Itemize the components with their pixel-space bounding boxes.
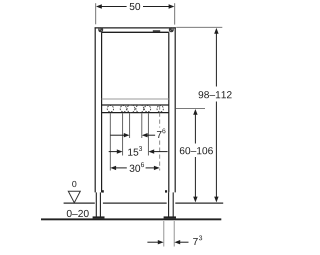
corner screw left: [98, 27, 103, 32]
tab mark on crossbar: [153, 30, 160, 31]
label 7-3: [193, 238, 198, 245]
supply pipe left outer edge: [122, 113, 124, 155]
left leg: [96, 192, 100, 216]
extension line x110: [109, 113, 111, 170]
dimension 7-3 extension right: [173, 221, 175, 247]
finished floor line: [64, 202, 224, 204]
dimension 50 extension left: [95, 3, 97, 24]
right leg: [169, 192, 174, 216]
dimension 15-3: [109, 146, 168, 156]
dimension 60-106: [180, 109, 213, 202]
dimension 50 extension right: [174, 3, 176, 24]
label 60-106: [180, 147, 185, 154]
level symbol triangle: [68, 191, 80, 203]
corner screw right: [169, 27, 174, 32]
left foot plate: [93, 216, 105, 218]
rail holes (dashed circles): [107, 105, 163, 113]
clamp nub right: [165, 190, 167, 192]
dimension 50: [96, 3, 174, 10]
mounting rail upper edge: [102, 98, 169, 100]
right foot plate: [164, 216, 176, 218]
dimension 7-6: [110, 128, 166, 139]
dimension 98-112: [199, 28, 232, 203]
right rail: [169, 27, 175, 192]
raw floor line: [41, 218, 221, 220]
dimension 7-3: [147, 235, 202, 245]
label 50: [130, 3, 135, 10]
level zero label: [72, 181, 76, 187]
supply pipe right outer edge: [147, 113, 149, 155]
dimension 30-6: [110, 162, 159, 172]
dimension 98-112 extension: [176, 26, 222, 28]
label 7-6: [157, 131, 162, 138]
supply pipe right inner edge: [141, 113, 143, 138]
label 98-112: [199, 91, 204, 98]
dimension 7-3 extension left: [163, 221, 165, 247]
label 15-3: [128, 149, 132, 156]
mounting rail band: [102, 105, 169, 113]
clamp nub left: [102, 190, 104, 192]
left rail: [95, 27, 101, 192]
label 0-20: [67, 210, 72, 217]
label 30-6: [130, 165, 135, 172]
top crossbar: [95, 28, 176, 32]
dimension 60-106 extension: [176, 107, 205, 109]
dashed centre line: [159, 106, 161, 171]
supply pipe left inner edge: [129, 113, 131, 138]
